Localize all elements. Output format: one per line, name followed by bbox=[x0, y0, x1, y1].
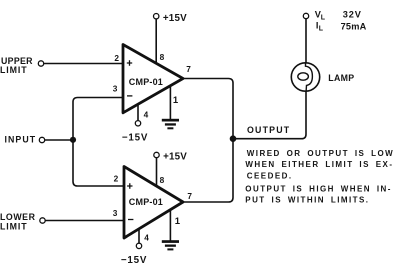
svg-text:−15V: −15V bbox=[122, 132, 148, 143]
plus marker U1 bbox=[127, 60, 132, 65]
wire input bus (U1 pin3 to U2 pin2) bbox=[73, 98, 123, 187]
minus marker U1 bbox=[127, 95, 132, 97]
svg-text:2: 2 bbox=[114, 174, 119, 184]
wire U1/U2 output bus bbox=[183, 79, 233, 203]
minus marker U2 bbox=[128, 219, 133, 221]
svg-text:OUTPUT: OUTPUT bbox=[247, 125, 290, 135]
svg-text:−15V: −15V bbox=[121, 255, 147, 266]
ground (U2 pin1) bbox=[162, 240, 179, 250]
svg-text:7: 7 bbox=[187, 191, 192, 201]
svg-text:LOWER: LOWER bbox=[0, 212, 36, 222]
op-amp U2 CMP-01 (lower comparator) bbox=[124, 167, 183, 239]
svg-text:1: 1 bbox=[173, 95, 179, 106]
svg-text:L: L bbox=[319, 26, 324, 33]
svg-text:OUTPUT IS HIGH WHEN IN-: OUTPUT IS HIGH WHEN IN- bbox=[245, 185, 392, 194]
wire upper-limit input to U1 pin2 bbox=[44, 63, 122, 65]
svg-text:CEEDED.: CEEDED. bbox=[247, 172, 293, 181]
wire +15V to U1 pin8 bbox=[155, 19, 157, 63]
wire lower-limit input to U2 pin3 bbox=[46, 220, 124, 222]
svg-text:L: L bbox=[321, 14, 326, 21]
svg-text:8: 8 bbox=[160, 52, 165, 62]
terminal -15V U1 bbox=[135, 121, 140, 126]
svg-text:75mA: 75mA bbox=[341, 21, 367, 31]
svg-text:2: 2 bbox=[114, 53, 119, 63]
svg-text:+15V: +15V bbox=[163, 152, 187, 163]
svg-text:WHEN EITHER LIMIT IS EX-: WHEN EITHER LIMIT IS EX- bbox=[245, 160, 393, 169]
terminal VL lamp supply bbox=[303, 13, 308, 18]
svg-text:4: 4 bbox=[144, 109, 149, 119]
terminal +15V U1 bbox=[154, 14, 159, 19]
terminal upper limit bbox=[38, 61, 43, 66]
wire U2 pin4 to -15V bbox=[138, 227, 140, 243]
plus marker U2 bbox=[127, 183, 132, 188]
svg-text:LIMIT: LIMIT bbox=[0, 65, 27, 75]
terminal -15V U2 bbox=[136, 243, 141, 248]
svg-text:32V: 32V bbox=[343, 9, 362, 19]
svg-text:4: 4 bbox=[144, 233, 149, 243]
svg-text:3: 3 bbox=[113, 83, 118, 93]
wire U1 pin1 to ground bbox=[169, 85, 171, 119]
terminal lower limit bbox=[40, 218, 45, 223]
svg-text:WIRED OR OUTPUT IS LOW: WIRED OR OUTPUT IS LOW bbox=[247, 149, 394, 158]
svg-text:INPUT: INPUT bbox=[5, 134, 37, 144]
svg-text:LIMIT: LIMIT bbox=[0, 222, 27, 232]
wire output node to lamp bbox=[233, 91, 306, 138]
node: output junction bbox=[230, 135, 237, 142]
svg-text:CMP-01: CMP-01 bbox=[129, 77, 163, 87]
svg-text:1: 1 bbox=[175, 216, 181, 227]
wire U2 pin1 to ground bbox=[169, 209, 171, 241]
svg-text:8: 8 bbox=[160, 175, 165, 185]
terminal +15V U2 bbox=[154, 152, 159, 157]
wire U1 pin4 to -15V bbox=[137, 103, 139, 121]
svg-text:PUT IS WITHIN LIMITS.: PUT IS WITHIN LIMITS. bbox=[245, 196, 369, 205]
wire +15V to U2 pin8 bbox=[156, 158, 158, 186]
svg-text:3: 3 bbox=[113, 208, 118, 218]
svg-text:+15V: +15V bbox=[163, 13, 187, 24]
svg-text:LAMP: LAMP bbox=[328, 73, 354, 83]
wire lamp upper lead bbox=[305, 19, 307, 63]
node: input junction bbox=[70, 137, 76, 143]
wire input terminal to junction bbox=[45, 139, 73, 141]
svg-text:CMP-01: CMP-01 bbox=[129, 197, 163, 207]
ground (U1 pin1) bbox=[162, 119, 179, 130]
lamp DS1 bbox=[291, 63, 319, 92]
terminal input bbox=[39, 137, 44, 142]
svg-text:7: 7 bbox=[186, 64, 191, 74]
op-amp U1 CMP-01 (upper comparator) bbox=[123, 45, 183, 113]
